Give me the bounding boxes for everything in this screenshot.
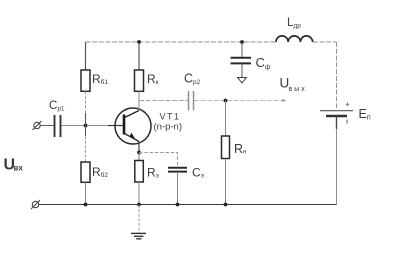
wire top rail to Rб1	[85, 42, 87, 70]
resistor Rэ	[135, 161, 144, 183]
svg-text:Rэ: Rэ	[147, 166, 160, 180]
wire Cp2 to output	[194, 100, 283, 102]
wire bottom rail to ground	[138, 205, 140, 234]
wire emitter junction to Cэ	[139, 153, 178, 168]
svg-text:Cр2: Cр2	[184, 72, 201, 87]
node Cэ bottom	[176, 203, 180, 207]
wire Rн to bottom rail	[225, 159, 227, 205]
wire Cp1 to base	[62, 125, 109, 127]
wire emitter vertical	[138, 142, 140, 153]
capacitor Cф	[231, 58, 252, 64]
wire junction to Rн	[225, 101, 227, 137]
svg-text:Eп: Eп	[359, 107, 371, 122]
wire right rail lower	[336, 116, 338, 129]
wire top rail right of inductor	[313, 41, 337, 43]
svg-text:Rн: Rн	[234, 142, 246, 156]
svg-text:Cэ: Cэ	[192, 166, 205, 180]
wire junction to Rб2	[85, 126, 87, 137]
svg-text:Cр1: Cр1	[49, 100, 65, 113]
input terminal bottom	[31, 200, 40, 209]
node Rк top	[137, 40, 141, 44]
svg-text:VT1: VT1	[160, 112, 181, 122]
svg-text:Lдр: Lдр	[287, 17, 301, 30]
input terminal top	[33, 121, 42, 130]
wire input to Cp1	[40, 125, 53, 127]
output arrowhead	[282, 99, 286, 102]
resistor Rб2	[81, 162, 90, 182]
inductor Lдр	[276, 36, 313, 42]
resistor Rб1	[81, 70, 90, 91]
svg-text:вх: вх	[14, 164, 24, 173]
wire Rб2 to bottom rail	[85, 182, 87, 204]
wire Cф to ground arrow	[241, 65, 243, 78]
battery plus sign	[346, 102, 350, 106]
node base divider junction	[84, 124, 88, 128]
capacitor Cэ	[168, 168, 187, 172]
node Rэ bottom	[137, 203, 141, 207]
svg-text:Rб1: Rб1	[92, 72, 108, 86]
wire collector into transistor	[138, 101, 140, 111]
capacitor Cp2	[189, 91, 194, 111]
node output junction	[224, 99, 228, 103]
wire emitter junction to Rэ	[138, 153, 140, 161]
wire top rail to Rк	[138, 42, 140, 70]
wire top rail left	[86, 41, 277, 43]
node Rн bottom	[224, 203, 228, 207]
svg-text:Rк: Rк	[147, 72, 159, 86]
svg-text:вых: вых	[289, 86, 307, 93]
battery Eп short plate	[326, 115, 347, 117]
svg-text:Cф: Cф	[256, 55, 271, 71]
capacitor Cp1	[55, 115, 61, 137]
wire Rэ to bottom rail	[138, 182, 140, 205]
wire Rб1 to junction	[85, 91, 87, 113]
node Cф top	[240, 40, 244, 44]
ground arrow under Cф	[238, 78, 247, 84]
wire Cэ to bottom rail	[177, 172, 179, 205]
svg-text:Rб2: Rб2	[92, 165, 108, 179]
node Rб2 bottom	[84, 203, 88, 207]
resistor Rк	[135, 70, 144, 91]
battery Eп long plate	[320, 110, 353, 112]
wire right rail upper	[336, 42, 338, 110]
transistor VT1	[115, 108, 151, 144]
ground	[131, 233, 146, 238]
resistor Rн	[222, 136, 230, 159]
svg-text:(n-p-n): (n-p-n)	[154, 122, 183, 133]
node emitter junction	[137, 151, 141, 155]
wire rail to Cф	[241, 42, 243, 57]
battery minus tick	[346, 120, 348, 124]
wire bottom rail	[39, 204, 337, 206]
wire Rк to collector	[138, 91, 140, 110]
wire collector to Cp2	[139, 100, 188, 102]
